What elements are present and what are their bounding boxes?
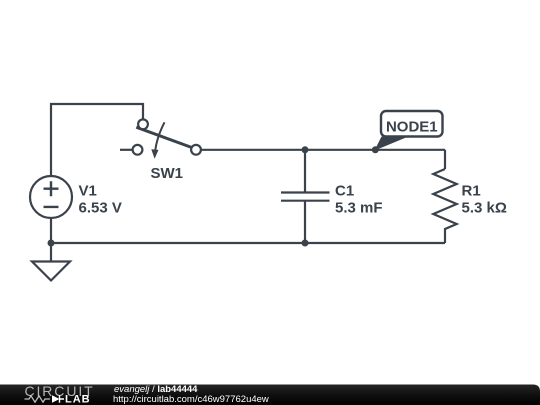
svg-text:R1: R1 [462, 183, 481, 200]
svg-text:5.3 mF: 5.3 mF [335, 200, 383, 217]
svg-text:http://circuitlab.com/c46w9776: http://circuitlab.com/c46w97762u4ew [113, 394, 269, 405]
svg-text:C1: C1 [335, 183, 354, 200]
svg-text:NODE1: NODE1 [386, 119, 438, 136]
svg-text:5.3 kΩ: 5.3 kΩ [462, 200, 507, 217]
svg-text:SW1: SW1 [151, 165, 184, 182]
svg-text:6.53 V: 6.53 V [79, 200, 122, 217]
svg-text:LAB: LAB [65, 394, 91, 405]
svg-text:V1: V1 [79, 183, 97, 200]
